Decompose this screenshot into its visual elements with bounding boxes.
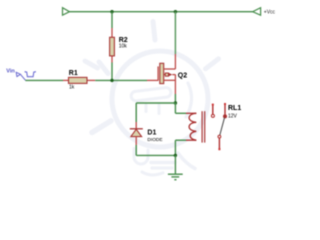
relay RL1 contact: left fixed pin bbox=[211, 104, 214, 118]
wire R2 bottom to gate wire bbox=[111, 63, 113, 81]
diode D1 bbox=[130, 122, 143, 145]
transistor Q2 gate bar bbox=[157, 66, 159, 80]
pulse waveform marker bbox=[25, 71, 35, 77]
relay RL1 coil bbox=[186, 113, 196, 140]
wire drain to rail bbox=[174, 54, 176, 69]
transistor Q2 channel plate bbox=[160, 63, 164, 83]
svg-text:10k: 10k bbox=[119, 43, 128, 49]
transistor Q2 source stub bbox=[164, 79, 176, 81]
wire R1 to gate bbox=[95, 79, 147, 81]
svg-text:1k: 1k bbox=[69, 85, 75, 91]
wire source down bbox=[174, 75, 176, 95]
wire coil top lead bbox=[175, 112, 186, 114]
watermark (decorative) bbox=[85, 22, 219, 175]
wire diode to bottom rail bbox=[135, 145, 137, 155]
wire source node to D1 branch (top of flyback loop) bbox=[136, 102, 175, 104]
svg-text:12V: 12V bbox=[228, 113, 238, 119]
svg-text:Q2: Q2 bbox=[178, 72, 187, 79]
relay RL1 core lines bbox=[201, 111, 203, 142]
junction bottom node bbox=[174, 154, 177, 157]
wire coil bottom lead bbox=[175, 139, 186, 141]
power terminal +Vcc (right end) bbox=[253, 8, 261, 16]
svg-text:+Vcc: +Vcc bbox=[264, 10, 276, 16]
relay RL1 contact: bottom common pin bbox=[218, 135, 221, 150]
svg-text:DIODE: DIODE bbox=[147, 137, 162, 143]
terminal tail wire bbox=[21, 75, 26, 81]
relay RL1 contact: right pin with blade pivot bbox=[223, 103, 226, 118]
resistor R2 bbox=[110, 28, 115, 63]
transistor Q2 gate pin bbox=[147, 79, 158, 81]
wire rail to R2 top bbox=[111, 12, 113, 28]
svg-text:RL1: RL1 bbox=[228, 105, 241, 112]
wire down to diode bbox=[135, 103, 137, 122]
relay RL1 switch blade bbox=[220, 118, 225, 135]
svg-text:D1: D1 bbox=[147, 130, 156, 137]
wire bottom of flyback loop bbox=[136, 154, 175, 156]
wire +Vcc top rail bbox=[70, 11, 253, 13]
junction gate wire / R2 bbox=[110, 79, 113, 82]
junction on rail at R2 branch bbox=[110, 10, 113, 13]
wire bottom node to ground bbox=[174, 155, 176, 174]
power terminal (left end of +Vcc rail) bbox=[63, 8, 70, 16]
svg-text:Vin: Vin bbox=[6, 68, 15, 74]
junction on rail at Q2 drain branch bbox=[174, 10, 177, 13]
wire source node down to coil lead bbox=[174, 103, 176, 113]
resistor R1 bbox=[63, 77, 95, 83]
transistor Q2 drain stub bbox=[164, 68, 176, 70]
svg-text:R1: R1 bbox=[69, 70, 78, 77]
wire input to R1 bbox=[25, 79, 63, 81]
ground bbox=[168, 174, 183, 180]
junction source node bbox=[174, 101, 177, 104]
wire coil to bottom node bbox=[174, 140, 176, 155]
input terminal triangle bbox=[16, 72, 20, 76]
transistor Q2 body stub with arrow bbox=[164, 73, 176, 77]
